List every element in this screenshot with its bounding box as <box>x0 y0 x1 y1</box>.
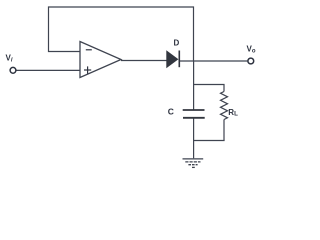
wire feedback loop: node to inverting input <box>49 7 194 61</box>
op-amp U1 <box>80 42 121 78</box>
svg-text:Vo: Vo <box>247 45 256 55</box>
terminal Vi <box>10 67 16 73</box>
wire ground stem <box>193 141 195 159</box>
wire node to RL top <box>194 85 225 92</box>
wire node down to capacitor top plate <box>193 61 195 110</box>
svg-text:RL: RL <box>228 108 238 118</box>
wire capacitor bottom to bottom rail <box>193 118 195 141</box>
op-amp minus sign <box>86 49 92 51</box>
resistor RL zigzag <box>221 92 228 120</box>
diode D <box>167 51 178 67</box>
wire bottom rail <box>193 140 225 142</box>
svg-text:C: C <box>168 106 174 116</box>
terminal Vo <box>248 58 254 64</box>
wire RL bottom to bottom rail <box>223 120 225 141</box>
diode D cathode bar <box>178 51 180 68</box>
capacitor C bottom plate <box>183 117 205 119</box>
capacitor C top plate <box>183 109 205 111</box>
wire op-amp output to diode anode <box>121 60 167 62</box>
wire input Vi to non-inverting input <box>16 69 80 71</box>
wire diode cathode to output terminal Vo <box>179 60 248 62</box>
op-amp plus sign <box>84 66 91 73</box>
ground <box>183 159 204 168</box>
svg-text:Vi: Vi <box>6 54 13 64</box>
svg-text:D: D <box>174 39 180 48</box>
